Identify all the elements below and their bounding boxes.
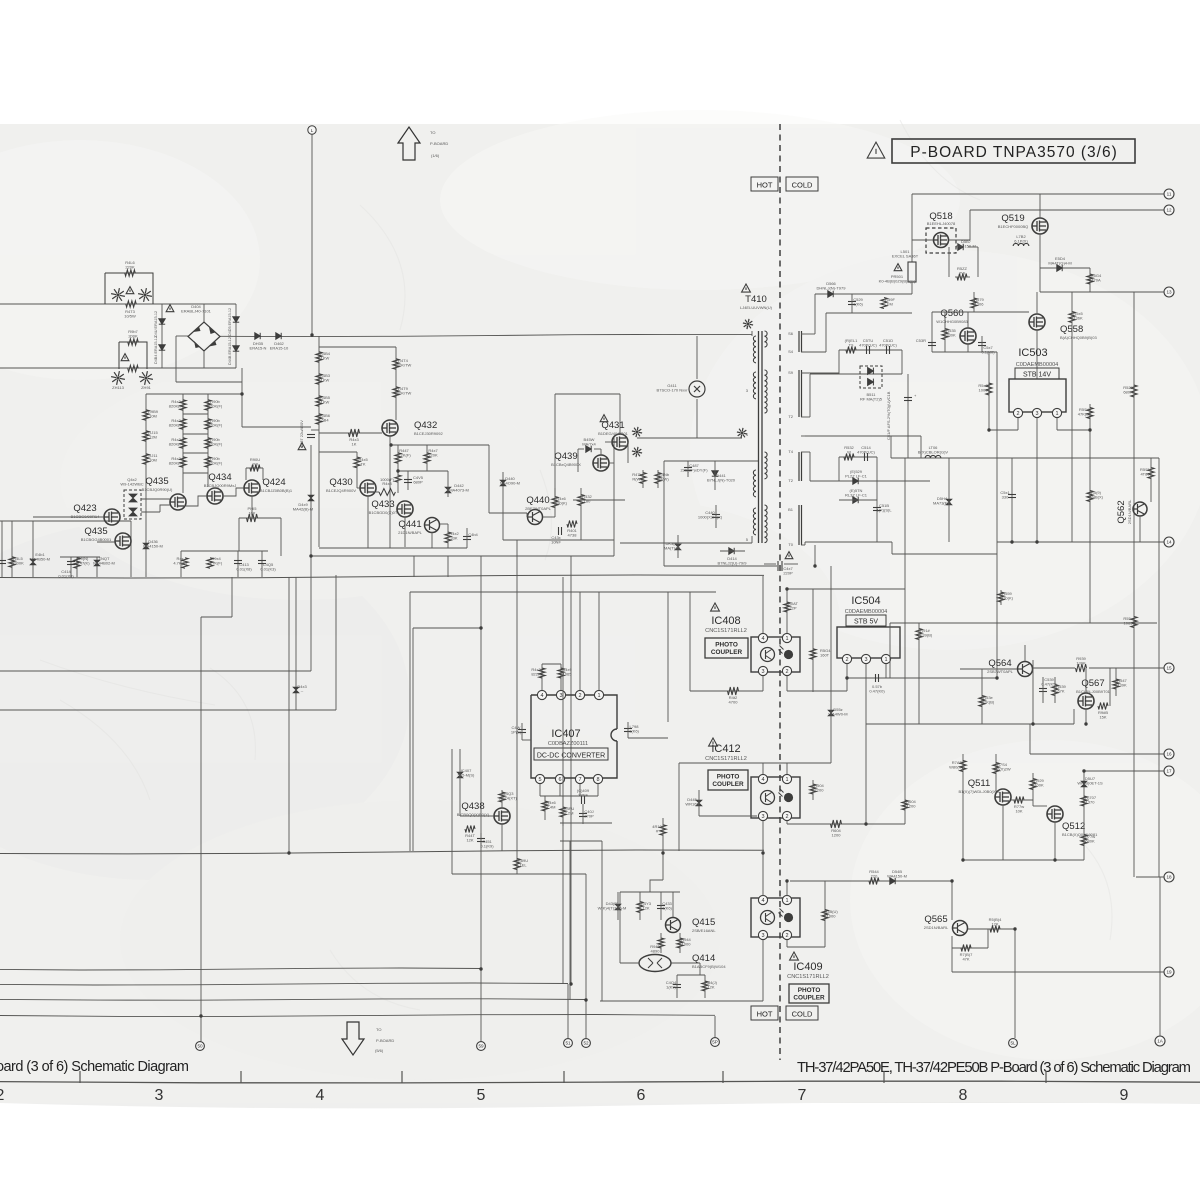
resistor R5G4	[1087, 274, 1093, 284]
wire	[181, 550, 268, 552]
pin number	[788, 507, 794, 512]
value label	[208, 418, 223, 428]
wire	[459, 749, 461, 816]
secondary rail	[799, 331, 802, 545]
ruler tick	[401, 1071, 403, 1083]
svg-text:CNC1S171RLL2: CNC1S171RLL2	[705, 756, 747, 762]
junction dot	[950, 879, 953, 882]
junction dot	[1035, 540, 1038, 543]
value label	[869, 869, 879, 879]
value label	[906, 799, 916, 809]
svg-text:MA(T)4B: MA(T)4B	[664, 546, 680, 551]
wire	[1089, 404, 1091, 430]
svg-text:5: 5	[538, 777, 541, 783]
zener IC407 protect	[457, 772, 463, 778]
resistor R7AB	[960, 761, 966, 772]
wire	[182, 473, 184, 493]
wire output bus 2	[0, 983, 568, 985]
wire	[1000, 590, 1002, 605]
label	[376, 1038, 394, 1043]
junction dot	[240, 392, 243, 395]
arrester Z4x9	[743, 319, 753, 329]
arrester Z4H2	[138, 288, 152, 302]
wire	[543, 516, 555, 518]
wire	[642, 470, 644, 488]
resistor R4B5	[316, 396, 322, 407]
value label	[531, 667, 541, 677]
svg-text:C53R: C53R	[916, 338, 926, 343]
value label	[1048, 256, 1071, 266]
value label	[1000, 490, 1010, 500]
zener D55z	[828, 710, 834, 716]
value label	[598, 901, 627, 911]
svg-text:PHOTO: PHOTO	[717, 774, 740, 781]
wire	[33, 516, 104, 518]
svg-text:HOT: HOT	[757, 1010, 773, 1019]
wire	[786, 763, 788, 774]
wire	[810, 480, 930, 482]
value label	[169, 418, 184, 428]
protection box 2	[119, 342, 147, 369]
wire	[613, 437, 615, 556]
resistor R4B6	[316, 414, 322, 425]
resistor R4T9	[393, 387, 399, 398]
wire	[762, 763, 764, 774]
value label	[208, 399, 223, 409]
wire	[440, 523, 448, 525]
wire	[1, 521, 3, 577]
svg-text:DHNLJ(N)-T979: DHNLJ(N)-T979	[817, 286, 847, 291]
label	[375, 1048, 384, 1053]
svg-text:1KW: 1KW	[321, 400, 330, 405]
TO P-BOARD (5/6) arrow	[342, 1022, 364, 1055]
resistor R944	[677, 938, 683, 948]
wire	[1036, 330, 1038, 379]
diode DH35	[255, 333, 260, 339]
wire	[918, 623, 920, 724]
wire	[801, 372, 839, 374]
junction dot	[479, 967, 482, 970]
svg-text:T2: T2	[788, 414, 793, 419]
wire	[541, 664, 543, 690]
svg-text:5L: 5L	[1010, 1041, 1016, 1046]
arrester Z4x4	[737, 428, 747, 438]
warning mark	[298, 443, 306, 450]
wire	[865, 664, 867, 824]
wire	[892, 553, 997, 555]
value label	[885, 297, 895, 307]
resistor R53e	[979, 696, 985, 707]
value label	[666, 980, 677, 990]
junction dot	[389, 443, 392, 446]
svg-text:330: 330	[1002, 495, 1009, 500]
svg-text:B1(X)(7)WDLJ0B0(X)S: B1(X)(7)WDLJ0B0(X)S	[958, 789, 999, 794]
svg-text:P-BOARD TNPA3570 (3/6): P-BOARD TNPA3570 (3/6)	[910, 144, 1118, 161]
wire	[696, 399, 698, 438]
value label	[1076, 656, 1086, 666]
wire	[948, 247, 950, 277]
wire	[466, 528, 468, 548]
pin number	[788, 449, 793, 454]
wire	[597, 784, 599, 796]
capacitor C51D	[887, 346, 890, 354]
wire	[838, 457, 840, 481]
wire	[521, 723, 523, 740]
svg-text:B1DEG/40/0R01: B1DEG/40/0R01	[598, 431, 629, 436]
resistor R4x	[180, 400, 186, 411]
capacitor C451	[477, 839, 485, 842]
value label	[169, 437, 184, 447]
svg-text:2BE7WT0APL: 2BE7WT0APL	[525, 506, 552, 511]
wire	[952, 947, 988, 949]
svg-text:12K: 12K	[707, 985, 714, 990]
svg-text:2: 2	[845, 657, 848, 663]
svg-text:TH-37/42PA50E, TH-37/42PE50B P: TH-37/42PA50E, TH-37/42PE50B P-Board (3 …	[797, 1060, 1191, 1076]
wire to connector 52	[585, 874, 587, 1038]
value label	[740, 305, 773, 310]
wire	[830, 566, 832, 763]
IC504 body	[837, 627, 900, 658]
value label	[887, 869, 907, 879]
connector 11	[1164, 189, 1174, 199]
resistor R707	[1081, 796, 1087, 806]
resistor R447	[395, 453, 401, 464]
resistor R539	[1052, 685, 1058, 696]
svg-text:Q567: Q567	[1081, 678, 1104, 689]
resistor R4t2	[728, 687, 739, 695]
svg-text:MA4150-M: MA4150-M	[956, 244, 976, 249]
svg-text:T4: T4	[788, 449, 793, 454]
wire	[609, 462, 614, 464]
value label	[844, 445, 854, 455]
IC503 pin 2	[1013, 408, 1022, 417]
svg-text:270P: 270P	[584, 814, 594, 819]
wire	[1089, 268, 1091, 292]
wire	[801, 351, 826, 353]
wire	[650, 880, 663, 892]
wire output bus 1	[0, 968, 481, 970]
resistor R401	[567, 521, 577, 528]
ruler tick	[563, 1071, 565, 1083]
svg-text:1370: 1370	[1086, 800, 1096, 805]
wire	[207, 473, 209, 487]
value label	[1077, 776, 1103, 786]
wire	[356, 452, 358, 488]
svg-text:WA4W0-M: WA4W0-M	[828, 712, 847, 717]
wire	[619, 394, 621, 434]
svg-text:1KW: 1KW	[321, 378, 330, 383]
value label	[397, 448, 411, 458]
transistor Q562	[1133, 502, 1148, 516]
svg-text:MA4T(G)4-M: MA4T(G)4-M	[1048, 261, 1071, 266]
svg-text:2SD1N/BARL: 2SD1N/BARL	[924, 925, 949, 930]
svg-text:820K(F): 820K(F)	[208, 442, 223, 447]
svg-text:C0DAEMB00004: C0DAEMB00004	[1016, 362, 1059, 368]
svg-text:1000(F): 1000(F)	[380, 477, 395, 482]
wire	[839, 499, 877, 501]
warning mark	[742, 284, 751, 292]
svg-text:B1CBJQ00R9MxJ: B1CBJQ00R9MxJ	[204, 483, 236, 488]
svg-text:220: 220	[871, 874, 878, 879]
wire	[554, 488, 556, 517]
wire	[901, 350, 903, 374]
resistor R4x2	[445, 532, 451, 543]
value label	[582, 494, 592, 504]
diode D4x9	[308, 495, 314, 501]
wire	[801, 544, 805, 546]
wire	[838, 350, 840, 374]
IC408 pin 2	[782, 666, 791, 675]
svg-text:1: 1	[785, 898, 788, 904]
PHOTO COUPLER box IC408	[705, 638, 748, 658]
svg-text:2: 2	[785, 814, 788, 820]
wire	[1040, 267, 1090, 269]
wire	[60, 556, 100, 558]
svg-text:4: 4	[761, 636, 764, 642]
wire	[890, 436, 892, 458]
svg-text:820K(F): 820K(F)	[169, 423, 184, 428]
resistor R77e	[1081, 835, 1087, 846]
junction dot	[1082, 769, 1085, 772]
value label	[974, 297, 984, 307]
pin number	[788, 414, 793, 419]
wire to connector 1A	[1159, 877, 1161, 1036]
value label	[499, 791, 517, 801]
capacitor C440	[712, 515, 720, 518]
bridge diode	[194, 341, 200, 348]
svg-text:2.2M: 2.2M	[565, 811, 574, 816]
wire	[637, 437, 742, 439]
svg-text:10M: 10M	[149, 458, 157, 463]
svg-text:470A: 470A	[1091, 278, 1101, 283]
svg-text:Q564: Q564	[988, 658, 1011, 669]
wire	[540, 795, 598, 797]
junction dot	[845, 676, 848, 679]
value label	[562, 667, 572, 677]
wire	[262, 468, 264, 480]
value label	[128, 329, 138, 339]
value label	[577, 788, 590, 798]
svg-text:4: 4	[761, 898, 764, 904]
svg-text:COUPLER: COUPLER	[711, 649, 743, 656]
wire	[280, 518, 282, 556]
svg-text:1(X)(S)L: 1(X)(S)L	[876, 508, 892, 513]
TO P-BOARD (1/6) arrow	[398, 127, 420, 160]
wire	[601, 841, 603, 1001]
wire Q415 box top	[620, 891, 680, 893]
capacitor C40J	[579, 814, 587, 817]
wire	[288, 577, 290, 853]
wire	[410, 591, 716, 593]
wire	[786, 940, 788, 947]
pin number	[788, 478, 793, 483]
PHOTO COUPLER box IC412	[708, 770, 748, 790]
value label	[525, 506, 552, 511]
wire ladder top	[146, 393, 242, 395]
capacitor C4b4	[463, 537, 471, 540]
wire	[660, 933, 662, 953]
resistor R5S1	[1148, 468, 1154, 479]
capacitor C413	[234, 561, 242, 564]
wire	[560, 822, 612, 824]
svg-text:TO: TO	[430, 130, 435, 135]
wire	[203, 351, 205, 368]
wire	[786, 589, 788, 633]
svg-text:MA4150-M: MA4150-M	[143, 544, 163, 549]
svg-text:2: 2	[578, 693, 581, 699]
wire	[594, 448, 601, 450]
wire	[672, 892, 674, 917]
transistor Q435 (ladder)	[170, 494, 186, 510]
svg-text:10K: 10K	[1015, 809, 1022, 814]
value label	[1041, 677, 1057, 687]
junction dot	[864, 822, 867, 825]
STB 5V box	[846, 615, 886, 626]
connector 1A	[1155, 1036, 1165, 1046]
svg-text:Q441: Q441	[398, 519, 421, 530]
svg-text:B1ECHF0000BQ: B1ECHF0000BQ	[998, 224, 1028, 229]
wire	[554, 394, 556, 497]
svg-text:330(K): 330(K)	[1001, 596, 1014, 601]
svg-text:STB 5V: STB 5V	[854, 619, 878, 626]
connector 12	[1164, 205, 1174, 215]
wire	[141, 511, 160, 513]
arrester ZH41	[632, 447, 642, 457]
svg-text:T0: T0	[788, 542, 793, 547]
value label	[927, 221, 956, 226]
wire	[839, 349, 902, 351]
value label	[650, 944, 660, 954]
bottom connector 59	[477, 1042, 486, 1051]
resistor R4x6	[542, 801, 548, 811]
COLD label bottom	[786, 1006, 818, 1020]
protection box 1	[105, 273, 153, 304]
wire	[809, 452, 811, 481]
wire	[891, 542, 893, 554]
IC412 pin 2	[782, 811, 791, 820]
resistor R47x	[640, 473, 646, 484]
svg-text:P-BOARD: P-BOARD	[430, 141, 448, 146]
wire	[989, 429, 1018, 431]
value label	[395, 358, 412, 368]
COLD label top	[786, 177, 818, 191]
wire to connector 12	[970, 209, 1164, 211]
wire	[223, 488, 244, 496]
IC407 pin 2	[575, 690, 584, 699]
value label	[1073, 311, 1083, 321]
wire	[981, 669, 983, 724]
svg-text:RL3Z LF-C1: RL3Z LF-C1	[845, 493, 868, 498]
junction dot	[287, 851, 290, 854]
svg-text:S4: S4	[788, 349, 794, 354]
wire	[526, 513, 528, 517]
wire	[689, 592, 691, 691]
value label	[584, 809, 594, 819]
junction dot	[309, 554, 312, 557]
svg-text:2F39(B): 2F39(B)	[918, 633, 933, 638]
svg-text:100K: 100K	[1034, 783, 1044, 788]
svg-text:Q433: Q433	[371, 499, 394, 510]
value label	[297, 684, 307, 694]
wire	[1032, 660, 1034, 724]
wire	[932, 311, 1029, 313]
HOT label bottom	[751, 1006, 778, 1020]
capacitor C517	[904, 398, 912, 401]
svg-text:2200: 2200	[815, 788, 825, 793]
wire	[664, 460, 758, 462]
ruler tick	[722, 1071, 724, 1083]
value label	[124, 309, 136, 319]
wire	[764, 563, 776, 565]
value label	[960, 952, 973, 962]
wire to connector 15	[1089, 667, 1164, 669]
svg-text:139K: 139K	[1117, 683, 1127, 688]
capacitor C5x1	[1008, 495, 1016, 498]
wire bus	[311, 555, 614, 557]
wire	[699, 963, 701, 975]
wire	[542, 663, 561, 665]
IC503 pin 1	[1052, 408, 1061, 417]
wire to connector 18	[1136, 876, 1164, 878]
junction dot	[961, 858, 964, 861]
wire	[931, 312, 933, 352]
STB 14V box	[1015, 368, 1059, 379]
connector 18	[1164, 872, 1174, 882]
svg-text:19: 19	[1166, 970, 1172, 975]
wire IC407 block left	[412, 628, 414, 851]
svg-text:820K(F): 820K(F)	[208, 423, 223, 428]
value label	[349, 437, 359, 447]
wire	[367, 496, 369, 548]
value label	[845, 469, 868, 479]
warning mark	[785, 552, 793, 559]
capacitor C487	[684, 468, 692, 471]
svg-text:18: 18	[1166, 875, 1172, 880]
ruler tick	[883, 1071, 885, 1083]
wire	[76, 557, 78, 577]
resistor R9x	[205, 438, 211, 449]
dual transistor Q414	[639, 955, 671, 972]
wire	[180, 551, 182, 577]
wire	[141, 498, 170, 500]
svg-text:R(W): R(W)	[632, 477, 642, 482]
wire	[310, 445, 312, 671]
capacitor C57b	[876, 674, 879, 682]
bridge diode	[209, 341, 217, 347]
diode D4D3	[159, 319, 165, 324]
value label	[879, 338, 897, 348]
svg-text:220P: 220P	[783, 571, 793, 576]
resistor R84x	[702, 981, 708, 991]
wire	[851, 294, 853, 313]
transistor Q567	[1078, 693, 1094, 709]
value label	[148, 453, 158, 463]
resistor R579	[971, 298, 977, 308]
wire	[911, 194, 913, 262]
svg-text:C4b4: C4b4	[468, 532, 478, 537]
wire	[663, 461, 665, 566]
svg-text:1306: 1306	[975, 302, 985, 307]
value label	[457, 812, 490, 817]
label	[692, 928, 716, 933]
resistor R939	[1076, 664, 1087, 672]
value label	[681, 937, 691, 947]
svg-text:Q519: Q519	[1001, 213, 1024, 224]
wire	[261, 551, 263, 577]
wire	[1083, 771, 1085, 860]
IC503 body	[1009, 379, 1066, 412]
svg-text:820K(F): 820K(F)	[208, 404, 223, 409]
